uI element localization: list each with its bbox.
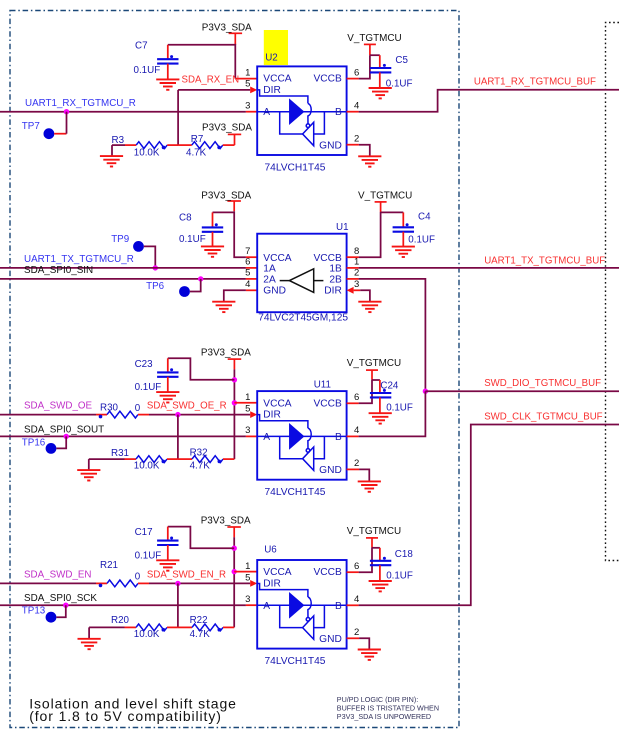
svg-text:6: 6 — [354, 561, 359, 572]
svg-text:7: 7 — [245, 246, 250, 257]
svg-text:VCCA: VCCA — [263, 567, 292, 578]
junction node R20/R22 tap — [175, 581, 180, 586]
resistor R3 10.0K — [125, 144, 136, 146]
svg-text:1: 1 — [245, 67, 250, 78]
junction node TP9 — [153, 265, 158, 270]
svg-text:6: 6 — [354, 67, 359, 78]
svg-text:6: 6 — [245, 257, 250, 268]
svg-text:TP13: TP13 — [22, 606, 46, 617]
ground below R31 — [77, 470, 100, 480]
svg-text:2B: 2B — [329, 274, 342, 285]
svg-text:1A: 1A — [263, 264, 276, 275]
target-MCU block border (black dotted, right) — [606, 23, 619, 561]
svg-text:SDA_RX_EN: SDA_RX_EN — [182, 75, 240, 86]
ground below C8 — [201, 246, 224, 256]
pin numbers of U6 — [245, 561, 359, 638]
svg-text:B: B — [335, 107, 342, 118]
ground below U1 pin 3 — [358, 302, 381, 312]
svg-text:8: 8 — [354, 246, 359, 257]
ground below C17 — [156, 560, 179, 570]
pin numbers of U2 — [245, 67, 359, 144]
svg-text:P3V3_SDA: P3V3_SDA — [201, 348, 251, 359]
capacitor C17 — [168, 527, 234, 549]
op-amp U2 74LVCH1T45 body — [257, 66, 346, 155]
svg-text:6: 6 — [354, 392, 359, 403]
ground below C5 — [369, 88, 392, 98]
wire SDA_RX_EN to DIR pin 5 of U2 — [178, 89, 250, 91]
svg-text:0: 0 — [135, 572, 141, 583]
svg-text:R21: R21 — [100, 560, 118, 571]
resistor R21 0 ohm — [0, 582, 96, 584]
ground below C7 — [156, 79, 179, 89]
svg-text:3: 3 — [245, 101, 250, 112]
svg-text:SWD_CLK_TGTMCU_BUF: SWD_CLK_TGTMCU_BUF — [484, 411, 602, 422]
svg-text:TP6: TP6 — [146, 281, 165, 292]
svg-text:P3V3_SDA: P3V3_SDA — [202, 22, 252, 33]
svg-text:74LVCH1T45: 74LVCH1T45 — [265, 162, 326, 173]
svg-text:2: 2 — [354, 627, 359, 638]
svg-text:0: 0 — [135, 403, 141, 414]
svg-text:A: A — [263, 432, 270, 443]
svg-text:C18: C18 — [395, 549, 414, 560]
svg-text:VCCB: VCCB — [313, 74, 342, 85]
svg-text:10.0K: 10.0K — [134, 629, 160, 640]
capacitor C23 — [168, 358, 235, 380]
capacitor C7 — [167, 45, 169, 59]
wire SDA_SPI0_SOUT to pin 3 A — [0, 435, 246, 437]
ground below C4 — [392, 247, 415, 257]
svg-text:74LVCH1T45: 74LVCH1T45 — [265, 487, 326, 498]
svg-text:0.1UF: 0.1UF — [386, 570, 413, 581]
svg-text:R31: R31 — [111, 448, 129, 459]
svg-text:UART1_RX_TGTMCU_R: UART1_RX_TGTMCU_R — [25, 98, 136, 109]
svg-text:VCCA: VCCA — [263, 74, 292, 85]
wire U1 DIR pin 3 to ground — [347, 287, 354, 294]
svg-text:4: 4 — [354, 425, 359, 436]
svg-text:10.0K: 10.0K — [134, 148, 160, 159]
svg-text:VCCA: VCCA — [263, 253, 292, 264]
resistor R31 10.0K — [89, 458, 125, 460]
svg-text:TP7: TP7 — [22, 121, 40, 132]
svg-text:2: 2 — [354, 134, 359, 145]
svg-text:C4: C4 — [418, 211, 431, 222]
svg-text:5: 5 — [245, 79, 250, 90]
wire SDA_SPI0_SCK to pin 3 A — [0, 604, 246, 606]
power symbol V_TGTMCU (stage 2) — [375, 202, 387, 212]
svg-text:1: 1 — [245, 392, 250, 403]
wire SDA_SWD_EN_R to DIR pin 5 of U6 — [250, 580, 257, 587]
svg-text:A: A — [263, 107, 270, 118]
svg-text:A: A — [263, 601, 270, 612]
svg-text:V_TGTMCU: V_TGTMCU — [358, 190, 412, 201]
svg-text:3: 3 — [245, 425, 250, 436]
svg-text:5: 5 — [245, 403, 250, 414]
wire U11 GND pin 2 to ground — [347, 468, 360, 470]
resistor R20 10.0K — [89, 626, 124, 628]
wire SDA_SWD_OE_R to DIR pin 5 of U11 — [250, 411, 257, 418]
ground below U2 pin 2 — [358, 156, 381, 166]
svg-text:DIR: DIR — [263, 410, 281, 421]
svg-text:4.7K: 4.7K — [190, 629, 211, 640]
svg-text:DIR: DIR — [263, 85, 281, 96]
wire UART1_TX_TGTMCU_R to pin 6 1A — [0, 267, 246, 269]
svg-text:74LVC2T45GM,125: 74LVC2T45GM,125 — [258, 312, 348, 323]
wire junction vertical to pull resistors — [177, 90, 179, 145]
svg-text:C17: C17 — [135, 527, 153, 538]
wire R31 to ground — [88, 459, 90, 470]
buffer U2 74LVCH1T45 — [264, 30, 288, 65]
svg-text:4: 4 — [354, 594, 359, 605]
wire pin 1 VCCA of U11 — [234, 402, 257, 404]
pin numbers of U1 — [245, 246, 359, 290]
wire P3V3_SDA rail down to R22 pull-up — [233, 537, 235, 627]
svg-text:SWD_DIO_TGTMCU_BUF: SWD_DIO_TGTMCU_BUF — [484, 378, 601, 389]
power symbol P3V3_SDA (R7 pull-up) — [228, 134, 241, 145]
wire U1 GND pin 4 to ground — [246, 289, 257, 291]
svg-text:C5: C5 — [395, 55, 408, 66]
svg-text:2: 2 — [354, 458, 359, 469]
svg-text:C7: C7 — [135, 40, 148, 51]
ground below U6 pin 2 — [358, 650, 381, 660]
note PU/PD LOGIC — [337, 695, 439, 721]
junction node TP6 — [198, 276, 203, 281]
ground below U11 pin 2 — [358, 481, 381, 491]
svg-text:0.1UF: 0.1UF — [179, 234, 206, 245]
svg-text:SDA_SWD_EN_R: SDA_SWD_EN_R — [147, 569, 226, 580]
svg-text:P3V3_SDA: P3V3_SDA — [201, 190, 251, 201]
junction node C17 branch — [232, 546, 237, 551]
svg-text:10.0K: 10.0K — [134, 460, 160, 471]
svg-text:UART1_TX_TGTMCU_BUF: UART1_TX_TGTMCU_BUF — [484, 255, 605, 266]
svg-text:C24: C24 — [380, 381, 399, 392]
wire V_TGTMCU to pin 6 VCCB of U11 — [359, 380, 372, 404]
power symbol V_TGTMCU (stage 1) — [364, 44, 376, 55]
wire TP7 to net — [54, 133, 66, 135]
wire R3 to ground — [111, 145, 113, 156]
svg-text:U1: U1 — [336, 222, 349, 233]
svg-text:SDA_SWD_OE_R: SDA_SWD_OE_R — [147, 401, 227, 412]
wire U6 output B to SWD_CLK_TGTMCU_BUF — [347, 604, 359, 606]
ground below U1 pin 4 — [212, 302, 235, 312]
svg-text:0.1UF: 0.1UF — [408, 234, 435, 245]
svg-text:GND: GND — [319, 140, 342, 151]
wire V_TGTMCU to pin 8 VCCB — [359, 212, 381, 257]
svg-text:GND: GND — [319, 465, 342, 476]
sheet border (blue dash-dot) — [10, 11, 459, 728]
junction node TP7 tap — [64, 109, 69, 114]
svg-text:R20: R20 — [111, 615, 130, 626]
capacitor C24 — [372, 379, 380, 381]
pin numbers of U11 — [245, 392, 359, 469]
junction node pin 1 branch — [232, 400, 237, 405]
svg-text:R3: R3 — [112, 135, 125, 146]
wire R20 to ground — [88, 627, 90, 638]
svg-text:1: 1 — [245, 561, 250, 572]
svg-text:B: B — [335, 601, 342, 612]
svg-text:P3V3_SDA: P3V3_SDA — [201, 516, 251, 527]
svg-text:C8: C8 — [179, 213, 192, 224]
resistor R7 4.7K — [178, 144, 192, 146]
svg-text:V_TGTMCU: V_TGTMCU — [347, 33, 401, 44]
op-amp U11 74LVCH1T45 body — [257, 391, 346, 480]
svg-text:R32: R32 — [190, 447, 208, 458]
wire TP6 tap — [190, 279, 201, 292]
svg-text:SDA_SWD_EN: SDA_SWD_EN — [24, 569, 92, 580]
svg-text:U6: U6 — [264, 544, 277, 555]
svg-text:1: 1 — [354, 257, 359, 268]
svg-text:U2: U2 — [265, 53, 278, 64]
wire TP13 tap — [56, 605, 65, 617]
wire P3V3_SDA to pin1 and C7 — [168, 45, 236, 79]
svg-text:TP16: TP16 — [22, 438, 46, 449]
svg-text:UART1_RX_TGTMCU_BUF: UART1_RX_TGTMCU_BUF — [474, 77, 596, 88]
svg-text:GND: GND — [263, 285, 286, 296]
svg-text:74LVCH1T45: 74LVCH1T45 — [265, 656, 326, 667]
svg-text:R7: R7 — [191, 134, 204, 145]
junction node TP13 — [63, 603, 68, 608]
capacitor C5 — [370, 54, 380, 56]
svg-text:VCCB: VCCB — [313, 253, 342, 264]
wire TP9 tap — [144, 246, 155, 268]
svg-text:C23: C23 — [135, 359, 154, 370]
resistor R22 4.7K — [178, 626, 192, 628]
svg-text:1B: 1B — [329, 264, 342, 275]
svg-text:2A: 2A — [263, 274, 276, 285]
junction node C23 branch — [232, 377, 237, 382]
resistor R30 0 ohm — [0, 414, 96, 416]
capacitor C18 — [372, 547, 380, 549]
wire U2 output B to UART1_RX_TGTMCU_BUF — [347, 111, 359, 113]
power symbol P3V3_SDA (stage 3) — [228, 359, 242, 369]
svg-text:R30: R30 — [100, 403, 119, 414]
svg-text:SDA_SPI0_SOUT: SDA_SPI0_SOUT — [24, 424, 104, 435]
wire P3V3_SDA to pin 7 VCCA — [234, 211, 246, 257]
ground below R3 — [100, 156, 123, 166]
wire U2 GND pin 2 to ground — [347, 144, 359, 146]
wire U1 2B to SWD_DIO junction — [347, 278, 359, 280]
svg-text:(for 1.8 to 5V compatibility): (for 1.8 to 5V compatibility) — [29, 708, 222, 724]
svg-text:VCCB: VCCB — [313, 567, 342, 578]
svg-text:SDA_SWD_OE: SDA_SWD_OE — [24, 401, 93, 412]
svg-text:4: 4 — [354, 101, 359, 112]
junction node TP16 — [63, 434, 68, 439]
wire UART1_RX_TGTMCU_R — [0, 111, 246, 113]
power symbol V_TGTMCU (stage 3) — [366, 370, 378, 380]
op-amp U6 74LVCH1T45 body — [257, 560, 346, 649]
svg-text:0.1UF: 0.1UF — [134, 65, 161, 76]
junction node R31/R32 tap — [175, 412, 180, 417]
wire U1 1B output to UART1_TX_TGTMCU_BUF — [347, 267, 359, 269]
ground below C24 — [369, 413, 392, 423]
svg-text:DIR: DIR — [263, 579, 281, 590]
svg-text:VCCA: VCCA — [263, 398, 292, 409]
svg-text:V_TGTMCU: V_TGTMCU — [347, 526, 401, 537]
svg-text:4.7K: 4.7K — [190, 460, 211, 471]
wire U11 output B to SWD_DIO junction — [347, 435, 359, 437]
svg-text:3: 3 — [354, 279, 359, 290]
svg-text:U11: U11 — [314, 379, 331, 390]
capacitor C8 — [213, 211, 235, 213]
resistor R32 4.7K — [178, 458, 192, 460]
ground below C23 — [156, 392, 179, 402]
svg-text:5: 5 — [245, 572, 250, 583]
wire P3V3_SDA rail down to R32 pull-up — [233, 369, 235, 459]
svg-text:3: 3 — [245, 594, 250, 605]
svg-text:V_TGTMCU: V_TGTMCU — [347, 358, 401, 369]
svg-text:GND: GND — [319, 634, 342, 645]
svg-text:P3V3_SDA IS UNPOWERED: P3V3_SDA IS UNPOWERED — [337, 712, 431, 721]
wire SWD_DIO_TGTMCU_BUF — [425, 390, 619, 392]
svg-text:P3V3_SDA: P3V3_SDA — [202, 122, 252, 133]
wire V_TGTMCU to pin 6 VCCB — [359, 55, 370, 78]
power symbol V_TGTMCU (stage 4) — [366, 538, 378, 548]
svg-text:SDA_SPI0_SIN: SDA_SPI0_SIN — [24, 265, 93, 276]
svg-text:4: 4 — [245, 279, 250, 290]
junction node pin 1 branch stage 4 — [232, 569, 237, 574]
svg-text:0.1UF: 0.1UF — [386, 403, 413, 414]
svg-text:VCCB: VCCB — [313, 398, 342, 409]
svg-text:DIR: DIR — [324, 285, 342, 296]
capacitor C4 — [381, 211, 404, 213]
svg-text:4.7K: 4.7K — [186, 148, 207, 159]
wire SDA_SPI0_SIN to pin 5 2A — [0, 278, 246, 280]
power symbol P3V3_SDA (stage 4) — [227, 527, 241, 537]
svg-text:SDA_SPI0_SCK: SDA_SPI0_SCK — [24, 593, 97, 604]
svg-text:2: 2 — [354, 268, 359, 279]
op-amp U1 74LVC2T45GM,125 body — [257, 234, 346, 313]
wire V_TGTMCU to pin 6 VCCB of U6 — [359, 547, 372, 572]
junction node SWD_DIO — [423, 389, 428, 394]
wire U6 GND pin 2 to ground — [347, 637, 360, 639]
svg-text:UART1_TX_TGTMCU_R: UART1_TX_TGTMCU_R — [24, 254, 134, 265]
svg-text:5: 5 — [245, 268, 250, 279]
svg-text:TP9: TP9 — [111, 234, 129, 245]
ground below R20 — [78, 639, 101, 649]
svg-text:B: B — [335, 432, 342, 443]
ground below C18 — [369, 581, 392, 591]
wire TP16 tap — [56, 436, 66, 448]
wire pin 1 VCCA of U6 — [234, 571, 257, 573]
power symbol P3V3_SDA (stage 1 top) — [229, 33, 243, 45]
power symbol P3V3_SDA (stage 2) — [227, 201, 241, 211]
svg-text:R22: R22 — [190, 615, 208, 626]
